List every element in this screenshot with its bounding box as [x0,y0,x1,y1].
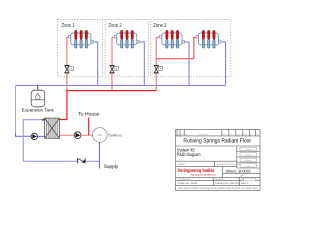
wire: pump2 to tankless [81,134,93,136]
svg-text:Approved by: first release: Approved by: first release [216,163,242,166]
svg-text:Appd: Appd [236,133,240,136]
wire: blue header [16,85,226,87]
title block header tiny text [178,133,259,136]
classification row [178,178,247,181]
svg-text:Project ID: 12345: Project ID: 12345 [178,182,199,185]
svg-text:Date: Date [243,133,247,136]
svg-text:Zone 1: Zone 1 [62,23,75,29]
wire: HX hot out to pump2 [59,134,74,136]
svg-text:of: of [241,175,243,178]
svg-text:Sh: Sh [256,133,258,136]
svg-text:Expansion Tank: Expansion Tank [22,107,55,112]
wire: supply drop from tankless [98,142,100,168]
wire: red header [67,90,156,92]
pump P1 [31,133,37,139]
radiant loop icon zone3a [160,30,185,48]
svg-text:www.EngineeringToolBox.com: www.EngineeringToolBox.com [191,174,216,177]
zone 2 box [105,19,149,76]
svg-text:B-0001: B-0001 [239,168,252,173]
svg-text:Classification: Classification [178,178,192,181]
wire: zone2 red supply [112,37,115,90]
svg-text:Tankless: Tankless [108,134,122,138]
svg-text:Drwn: Drwn [222,133,226,136]
wire: blue return zone2 [139,42,144,86]
wire: red down to HX [59,91,67,120]
svg-text:Rev: 1: Rev: 1 [241,182,249,185]
wire: blue left drop to pump1 [16,86,32,137]
zone valve V2 [110,66,119,73]
svg-text:Made with the FREE online engi: Made with the FREE online engineering To… [178,187,259,190]
svg-text:Revision: Revision [215,178,224,181]
zone valve V1 [64,66,73,73]
wire: blue return zone3a [184,42,189,86]
wire: blue return zone3b [221,42,226,86]
svg-text:Supply: Supply [104,164,119,170]
svg-text:No: No [178,133,180,136]
svg-text:Zone 3: Zone 3 [153,23,166,29]
svg-text:Chkd: Chkd [229,133,233,136]
svg-text:P&ID Diagram: P&ID Diagram [177,152,201,157]
right column mini boxes [240,147,257,167]
svg-text:Rev: Rev [185,133,188,136]
heat exchanger HX [42,118,59,138]
wire: to house riser [88,117,90,135]
svg-text:Description: Description [199,133,208,136]
radiant loop icon zone1 [69,30,94,48]
svg-text:HW: HW [98,134,103,137]
wire: pump1 to HX [38,135,45,137]
svg-text:Zone 2: Zone 2 [108,23,121,29]
svg-text:Subtitle: Subtitle [178,163,186,166]
wire: zone1 red supply [67,37,69,90]
zone valve V3 [154,66,163,73]
radiant loop icon zone2 [114,30,139,48]
tankless water heater [93,128,123,143]
zone 1 box [58,19,103,76]
svg-text:Running Springs Radiant Floor: Running Springs Radiant Floor [183,138,251,145]
svg-text:Date: Date [181,133,185,136]
svg-text:Drawing no: 000-001: Drawing no: 000-001 [215,182,240,185]
wire: blue return zone1 [93,42,98,86]
svg-text:Sheet:: Sheet: [226,168,237,173]
zone 3 box [151,19,231,76]
svg-text:To House: To House [78,112,100,118]
wire: zone3 red supply [156,37,196,90]
title block [176,129,260,190]
check valve [78,158,86,163]
pump P2 [74,132,81,139]
radiant loop icon zone3b [196,30,221,48]
expansion tank [22,85,55,112]
wire: HX cold out top-left [23,120,44,161]
wire: makeup supply line [23,160,99,162]
